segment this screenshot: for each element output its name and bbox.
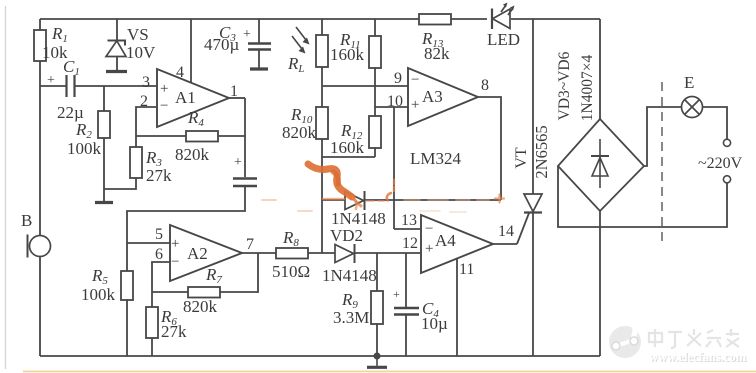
wire C2 bottom to A2 <box>127 187 245 243</box>
svg-text:160k: 160k <box>330 138 365 157</box>
wire RL top lead <box>321 19 323 35</box>
svg-text:820k: 820k <box>175 145 210 164</box>
wire R11 top lead <box>374 19 376 36</box>
wire pin10 A3 <box>375 106 408 108</box>
watermark url <box>649 350 748 365</box>
svg-text:27k: 27k <box>146 166 172 185</box>
photoresistor RL arrows <box>292 27 310 54</box>
svg-text:LED: LED <box>487 30 520 49</box>
svg-text:VS: VS <box>127 25 149 44</box>
wire R9 bottom lead <box>376 324 378 356</box>
wire C3 top lead <box>258 19 260 43</box>
svg-text:+: + <box>47 73 55 88</box>
wire R10 R12 bottoms join <box>322 156 375 158</box>
svg-text:+: + <box>171 236 179 252</box>
photoresistor RL body <box>316 35 328 67</box>
wire left border mid <box>39 61 41 236</box>
terminal upper <box>723 139 730 146</box>
wire bridge bottom lead <box>599 211 601 356</box>
wire VT cathode <box>532 212 534 356</box>
wire top rail LED to bridge corner <box>511 18 600 20</box>
svg-text:A4: A4 <box>435 231 456 250</box>
svg-text:5: 5 <box>155 226 163 243</box>
wire pin5 A2 <box>127 242 170 244</box>
junction node dot <box>374 353 381 360</box>
ground under VS <box>106 70 127 73</box>
resistor R11 <box>369 36 381 68</box>
resistor R9 <box>371 291 383 324</box>
wire A2 output to R8 <box>242 252 276 254</box>
LED <box>492 3 515 30</box>
svg-text:7: 7 <box>246 236 254 253</box>
wire RL bottom lead <box>321 67 323 86</box>
wire lower terminal to bridge left <box>558 166 727 227</box>
wire VS top lead <box>116 19 118 40</box>
svg-text:VD3~VD6: VD3~VD6 <box>556 51 573 120</box>
svg-text:6: 6 <box>155 246 163 263</box>
resistor R1 <box>34 30 46 61</box>
svg-text:A3: A3 <box>422 87 443 106</box>
wire pin3 A1 <box>74 85 157 87</box>
wire R7 right feedback <box>220 253 258 292</box>
orange scribble annotation <box>262 164 504 212</box>
svg-text:10V: 10V <box>126 43 156 62</box>
svg-text:820k: 820k <box>282 123 317 142</box>
svg-text:100k: 100k <box>81 285 116 304</box>
wire bridge right to lamp <box>644 107 681 166</box>
wire left border top <box>39 19 41 30</box>
svg-text:12: 12 <box>402 235 418 252</box>
svg-text:10µ: 10µ <box>421 314 448 333</box>
wire pin2 A1 <box>136 107 157 147</box>
wire pin4 A1 <box>190 19 192 83</box>
svg-text:−: − <box>171 254 179 270</box>
svg-text:+: + <box>234 155 242 170</box>
resistor R5 <box>121 271 133 300</box>
ground under node dot <box>367 356 387 367</box>
resistor R2 <box>98 111 110 138</box>
svg-text:+: + <box>160 81 168 97</box>
ground under R2 R3 <box>95 201 113 204</box>
svg-text:82k: 82k <box>424 44 450 63</box>
wire R4 left <box>136 135 186 137</box>
resistor R4 <box>186 131 218 142</box>
watermark logo <box>609 320 641 358</box>
svg-text:VT: VT <box>513 147 530 169</box>
svg-text:2N6565: 2N6565 <box>532 125 551 178</box>
wire VD1 anode <box>322 199 345 201</box>
wire R12 bottom lead <box>374 148 376 157</box>
wire VD2 to A4 pin12 <box>354 252 421 254</box>
capacitor C3 <box>248 44 271 50</box>
wire left border bottom <box>39 257 41 356</box>
wire R8 to VD2 <box>308 252 335 254</box>
capacitor C1 <box>67 75 75 97</box>
resistor R7 <box>188 287 220 298</box>
bottom orange strip <box>23 371 756 373</box>
svg-text:3: 3 <box>142 74 150 91</box>
wire VD1 cathode <box>365 199 501 201</box>
wire thyristor gate <box>517 213 529 244</box>
wire pin13 A4 <box>394 228 421 230</box>
svg-text:4: 4 <box>176 64 184 81</box>
svg-text:3.3M: 3.3M <box>333 308 369 327</box>
wire R7 left <box>152 291 188 293</box>
svg-text:1N4148: 1N4148 <box>322 266 377 285</box>
svg-text:1N4007×4: 1N4007×4 <box>579 55 596 122</box>
svg-text:100k: 100k <box>67 139 102 158</box>
capacitor C2 <box>233 179 257 187</box>
capacitor C4 <box>394 308 419 315</box>
microphone B <box>28 235 51 258</box>
svg-text:+: + <box>411 97 419 113</box>
svg-text:+: + <box>425 241 433 257</box>
wire R5 bottom lead <box>126 300 128 356</box>
svg-text:820k: 820k <box>183 297 218 316</box>
wire R9 top lead <box>376 253 378 291</box>
svg-text:VD2: VD2 <box>330 226 363 245</box>
wire pin1 A1 output <box>229 97 245 99</box>
wire R6 bottom lead <box>151 338 153 356</box>
svg-text:9: 9 <box>394 70 402 87</box>
svg-text:160k: 160k <box>330 45 365 64</box>
wire pin11 A4 <box>456 259 458 356</box>
resistor R12 <box>369 116 381 148</box>
wire top rail R13 to LED <box>451 18 487 20</box>
svg-text:8: 8 <box>481 77 489 94</box>
svg-text:−: − <box>425 221 433 237</box>
svg-text:−: − <box>160 98 168 114</box>
wire R5 top lead <box>126 243 128 271</box>
scan edge line <box>5 6 7 369</box>
svg-text:A1: A1 <box>175 88 196 107</box>
wire node riser VD2 to VD1 <box>321 200 323 253</box>
terminal lower <box>723 176 730 183</box>
wire A4 output pin14 <box>493 243 517 245</box>
lamp E <box>682 97 703 118</box>
diode VD1 1N4148 <box>345 191 365 210</box>
dashed separation line <box>661 82 663 246</box>
resistor R3 <box>130 147 142 178</box>
svg-text:10: 10 <box>387 93 403 110</box>
diode VD2 1N4148 <box>335 244 355 263</box>
resistor R10 <box>316 107 328 139</box>
wire A3 output pin8 <box>478 97 501 200</box>
wire C1 left lead <box>40 85 66 87</box>
ground under C3 <box>250 67 268 70</box>
wire lamp to upper terminal <box>703 107 727 139</box>
svg-text:E: E <box>684 73 694 92</box>
resistor R6 <box>146 307 158 338</box>
svg-text:~220V: ~220V <box>698 155 743 172</box>
svg-text:+: + <box>393 287 400 301</box>
svg-text:LM324: LM324 <box>410 149 462 168</box>
wire R2 top lead <box>103 86 105 111</box>
wire pin10 to pin13 riser <box>393 107 395 229</box>
wire pin6 A2 <box>152 262 170 292</box>
wire pin9 A3 <box>322 85 408 87</box>
wire top rail left <box>40 18 419 20</box>
op-amp A1 <box>157 69 229 127</box>
svg-text:14: 14 <box>498 223 514 240</box>
svg-text:13: 13 <box>401 212 417 229</box>
wire R11 bottom lead <box>374 68 376 107</box>
wire R3 bottom lead <box>104 178 136 189</box>
svg-text:470µ: 470µ <box>204 35 240 54</box>
wire R10 bottom lead <box>321 139 323 200</box>
svg-text:B: B <box>21 211 32 230</box>
wire VT anode <box>532 19 534 194</box>
svg-text:2: 2 <box>140 93 148 110</box>
svg-text:1: 1 <box>230 83 238 100</box>
resistor R13 <box>419 14 451 25</box>
wire VS bottom lead <box>116 57 118 71</box>
svg-text:+: + <box>243 27 251 42</box>
svg-text:A2: A2 <box>187 244 208 263</box>
wire C4 top lead <box>405 253 407 307</box>
bridge rectifier VD3-VD6 <box>558 119 644 211</box>
svg-text:11: 11 <box>459 261 474 278</box>
op-amp A3 <box>408 68 478 126</box>
svg-text:510Ω: 510Ω <box>272 262 310 281</box>
op-amp A4 <box>421 215 493 273</box>
watermark chinese characters <box>649 329 739 348</box>
wire C2 top lead <box>244 98 246 177</box>
op-amp A2 <box>170 225 242 281</box>
svg-text:−: − <box>411 72 419 88</box>
zener diode VS <box>106 41 126 57</box>
resistor R8 <box>276 248 308 259</box>
svg-text:www.elecfans.com: www.elecfans.com <box>649 350 747 364</box>
wire C4 bottom lead <box>405 315 407 356</box>
wire R2 bottom lead <box>103 138 105 201</box>
wire C3 bottom lead <box>258 51 260 68</box>
wire R6 top lead <box>151 292 153 307</box>
wire bridge top lead <box>599 19 601 119</box>
svg-text:27k: 27k <box>161 322 187 341</box>
wire R4 right <box>218 135 245 137</box>
wire R12 top lead <box>374 107 376 116</box>
thyristor VT <box>524 194 542 213</box>
wire bottom rail <box>40 355 600 357</box>
wire R10 top lead <box>321 86 323 107</box>
